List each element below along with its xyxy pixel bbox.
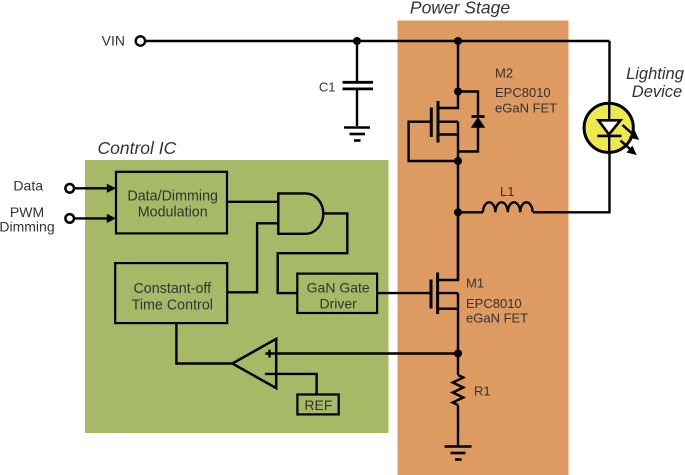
svg-text:Modulation: Modulation bbox=[138, 205, 208, 221]
capacitor C1 bbox=[319, 79, 373, 94]
wire lighting device top feed bbox=[608, 41, 610, 105]
svg-text:R1: R1 bbox=[474, 384, 491, 399]
svg-text:GaN Gate: GaN Gate bbox=[307, 280, 370, 296]
node PWM Dimming input terminal bbox=[0, 204, 74, 235]
wire modulation to AND input A bbox=[227, 201, 278, 203]
label M2 value bbox=[495, 65, 557, 115]
ground below R1 bbox=[445, 447, 472, 460]
wire switch node to M1 drain bbox=[457, 212, 459, 280]
svg-text:Data: Data bbox=[13, 178, 43, 194]
resistor R1 bbox=[453, 375, 491, 405]
wire AND output to gate driver bbox=[278, 213, 348, 293]
wire L1 to lighting device bbox=[533, 154, 610, 213]
svg-text:M1: M1 bbox=[466, 276, 484, 291]
svg-text:Power Stage: Power Stage bbox=[410, 0, 510, 18]
svg-text:eGaN FET: eGaN FET bbox=[495, 101, 557, 116]
svg-text:Data/Dimming: Data/Dimming bbox=[127, 188, 218, 204]
node junction M2 source bbox=[454, 157, 462, 165]
wire C1 top lead bbox=[356, 41, 358, 81]
control IC region bbox=[85, 138, 389, 433]
label M1 value bbox=[466, 276, 528, 326]
block GaN gate driver bbox=[297, 274, 377, 313]
wire comparator output to constant-off block bbox=[176, 323, 232, 363]
node junction switch node bbox=[454, 208, 462, 216]
LED lighting device bbox=[584, 103, 639, 155]
transistor M2 EPC8010 eGaN FET bbox=[431, 92, 458, 162]
svg-text:Control IC: Control IC bbox=[98, 138, 177, 158]
wire comparator plus input from sense node bbox=[265, 352, 458, 354]
wire R1 to ground bbox=[457, 405, 459, 446]
svg-text:EPC8010: EPC8010 bbox=[466, 296, 522, 311]
label lighting device bbox=[626, 65, 685, 101]
wire VIN top rail bbox=[146, 40, 610, 42]
svg-text:L1: L1 bbox=[500, 184, 514, 199]
node junction current sense bbox=[454, 350, 462, 358]
svg-text:EPC8010: EPC8010 bbox=[495, 85, 551, 100]
svg-text:eGaN FET: eGaN FET bbox=[466, 311, 528, 326]
wire constant-off to AND input B bbox=[227, 223, 278, 292]
wire PWM input arrow bbox=[74, 214, 116, 223]
diode D parallel with M2 bbox=[458, 92, 485, 152]
wire C1 bottom lead bbox=[356, 90, 358, 126]
wire M2 drain from top rail bbox=[457, 41, 459, 92]
power stage region bbox=[398, 0, 569, 475]
svg-text:VIN: VIN bbox=[102, 32, 125, 48]
node junction M2 drain / diode bbox=[454, 88, 462, 96]
transistor M1 EPC8010 eGaN FET bbox=[431, 212, 458, 353]
wire M2 gate-source loop bbox=[409, 122, 458, 161]
svg-text:M2: M2 bbox=[495, 65, 513, 80]
node Data input terminal bbox=[13, 178, 74, 194]
wire sense node to R1 bbox=[457, 354, 459, 376]
node VIN terminal bbox=[102, 32, 145, 48]
block constant-off time control bbox=[115, 263, 227, 323]
svg-text:Dimming: Dimming bbox=[0, 218, 55, 234]
svg-text:Device: Device bbox=[632, 83, 682, 101]
AND gate bbox=[278, 193, 323, 233]
node junction C1 tap bbox=[353, 37, 361, 45]
block data/dimming modulation U-mod bbox=[116, 172, 227, 234]
wire Data input arrow bbox=[74, 184, 116, 193]
inductor L1 bbox=[483, 184, 533, 212]
wire M2 source to switch node bbox=[457, 161, 459, 212]
node junction M2 drain tap bbox=[454, 37, 462, 45]
wire comparator minus input from REF bbox=[265, 374, 317, 395]
svg-text:Driver: Driver bbox=[320, 296, 358, 312]
ground below C1 bbox=[344, 128, 370, 141]
wire gate driver to M1 gate bbox=[377, 292, 431, 294]
svg-text:Lighting: Lighting bbox=[626, 65, 685, 83]
wire switch node to L1 bbox=[458, 211, 483, 213]
svg-text:Time Control: Time Control bbox=[132, 297, 213, 313]
svg-text:REF: REF bbox=[304, 397, 332, 413]
svg-text:Constant-off: Constant-off bbox=[133, 281, 211, 297]
svg-text:C1: C1 bbox=[319, 79, 336, 94]
op-amp comparator U-cmp bbox=[232, 339, 276, 388]
block REF bbox=[297, 395, 338, 415]
